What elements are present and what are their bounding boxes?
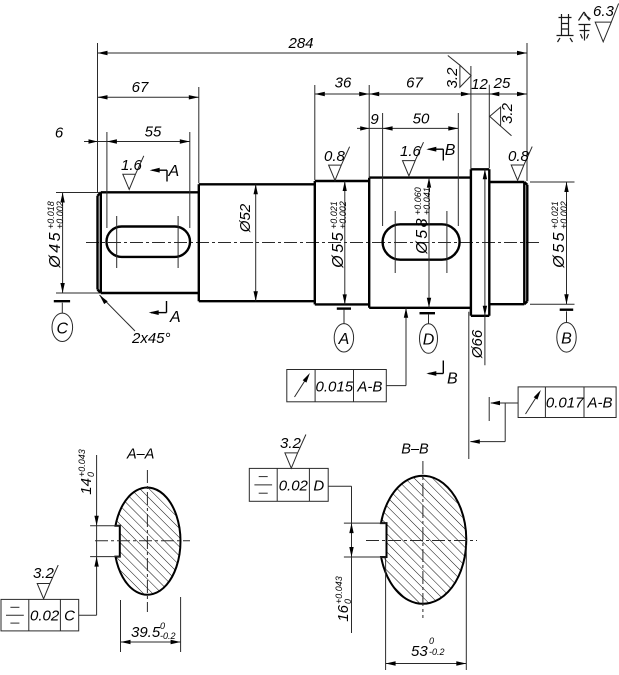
shaft section 1 outline (dia45) (98, 192, 199, 293)
keyway slot 2 (383, 224, 460, 259)
svg-text:3.2: 3.2 (499, 102, 516, 124)
section B-B vertical centerline (422, 461, 424, 618)
svg-text:50: 50 (413, 111, 430, 128)
section B-B horizontal centerline (366, 540, 477, 542)
svg-text:+0.002: +0.002 (338, 201, 348, 229)
roughness 3.2 over frame C (33, 565, 58, 599)
dim 50 (keyway 2 length) (383, 111, 459, 227)
svg-text:2x45°: 2x45° (131, 330, 171, 347)
svg-text:B: B (447, 371, 458, 388)
roughness 1.6 over section 1 (121, 156, 144, 190)
svg-text:D: D (313, 478, 324, 495)
svg-text:Ø52: Ø52 (237, 203, 254, 233)
svg-text:0.02: 0.02 (30, 608, 60, 625)
svg-text:25: 25 (493, 75, 511, 92)
roughness 3.2 rotated, collar right face (490, 102, 516, 135)
section arrow A upper (150, 163, 179, 182)
section A-A vertical centerline (146, 470, 148, 612)
svg-text:1.6: 1.6 (400, 143, 422, 160)
section arrow B upper (426, 142, 456, 161)
dim 12 (collar width) (471, 76, 489, 168)
keyway 2 arc center ticks (394, 211, 396, 273)
svg-text:Ø66: Ø66 (469, 329, 486, 359)
svg-text:284: 284 (287, 35, 313, 52)
svg-text:0.8: 0.8 (508, 148, 530, 165)
svg-text:14: 14 (78, 478, 95, 495)
svg-text:Ø58: Ø58 (414, 216, 431, 255)
svg-text:+0.002: +0.002 (559, 201, 569, 229)
svg-text:0: 0 (429, 636, 434, 646)
svg-text:0: 0 (343, 599, 353, 604)
dim dia45 left (46, 193, 99, 294)
collar left face extension line (468, 312, 470, 459)
svg-text:A: A (168, 163, 180, 180)
svg-text:Ø55: Ø55 (551, 230, 568, 269)
shaft section 3 outline (dia55 first) (315, 181, 369, 304)
roughness 0.8 over section 3 (324, 147, 350, 181)
svg-text:3.2: 3.2 (33, 565, 55, 582)
svg-text:B: B (561, 331, 572, 348)
section A-A hatched body (116, 488, 181, 595)
svg-text:3.2: 3.2 (280, 435, 302, 452)
dim dia58 keyway section (413, 178, 432, 308)
svg-text:Ø45: Ø45 (47, 230, 64, 269)
svg-text:1.6: 1.6 (121, 157, 143, 174)
svg-text:9: 9 (370, 111, 379, 128)
dim 16 keyway width B-B (334, 486, 387, 633)
dim dia52 (237, 184, 258, 301)
roughness 3.2 rotated, collar left face (444, 56, 471, 89)
shaft section 2 outline (dia52) (199, 184, 315, 301)
svg-text:Ø55: Ø55 (330, 230, 347, 269)
dim 284 overall (98, 35, 528, 192)
roughness 1.6 over section 4 (400, 142, 424, 176)
svg-text:A-B: A-B (356, 379, 382, 396)
dim 67 right (section 4 length) (369, 66, 471, 169)
svg-text:55: 55 (145, 124, 162, 141)
svg-text:6.3: 6.3 (593, 3, 615, 20)
datum C (52, 301, 73, 341)
centerline main axis (86, 242, 540, 244)
chamfer note 2x45deg (100, 295, 171, 347)
dim dia55 right (530, 182, 575, 304)
svg-text:0: 0 (160, 621, 165, 631)
svg-text:C: C (57, 321, 69, 338)
section arrow A lower (149, 301, 181, 326)
svg-text:0.015: 0.015 (316, 379, 354, 396)
roughness 3.2 over frame D (280, 435, 306, 469)
datum B (557, 310, 576, 352)
svg-text:A: A (169, 309, 181, 326)
svg-text:B–B: B–B (401, 442, 429, 458)
collar right face extension line (488, 397, 490, 421)
section B-B hatched body (381, 476, 466, 604)
chinese characters qi-yu (rest) drawn as strokes (557, 12, 591, 42)
dim dia55 first (329, 181, 348, 304)
svg-text:+0.041: +0.041 (422, 187, 432, 215)
section arrow B lower (426, 361, 458, 388)
svg-text:53: 53 (411, 643, 428, 660)
svg-text:12: 12 (471, 76, 488, 93)
svg-text:6: 6 (55, 125, 64, 142)
svg-text:C: C (64, 608, 75, 625)
dim 14 keyway width A-A (77, 449, 120, 615)
dim 9 (keyway 2 offset) (357, 111, 383, 131)
dim dia66 collar (469, 169, 487, 365)
dim 67 left (section 1 length) (98, 79, 199, 183)
dim 55 (keyway 1 length) (107, 124, 190, 229)
svg-text:+0.002: +0.002 (55, 201, 65, 229)
svg-text:0.02: 0.02 (279, 478, 309, 495)
svg-text:0.017: 0.017 (546, 395, 584, 412)
shaft section 4 outline (dia58 keyway section) (369, 178, 471, 308)
section A-A horizontal centerline (95, 540, 190, 542)
runout frame 0.017 A-B (470, 387, 616, 444)
dim 25 (right section length) (489, 75, 527, 96)
symmetry frame 0.02 C (1, 599, 97, 631)
svg-text:D: D (423, 332, 435, 349)
svg-text:A–A: A–A (126, 447, 154, 463)
svg-text:67: 67 (406, 75, 423, 92)
svg-text:36: 36 (335, 75, 352, 92)
svg-text:0: 0 (86, 472, 96, 477)
datum D (420, 313, 438, 353)
svg-text:A: A (338, 331, 350, 348)
shaft section 6 outline (dia55 right) (489, 182, 527, 304)
svg-text:67: 67 (132, 79, 149, 96)
svg-text:3.2: 3.2 (444, 67, 461, 89)
svg-text:39.5: 39.5 (131, 624, 161, 641)
general roughness note 6.3 top right (593, 3, 619, 42)
roughness 0.8 over section 6 (508, 147, 532, 181)
keyway slot 1 (107, 227, 191, 257)
dim 53 B-B (386, 545, 467, 670)
datum A (334, 309, 353, 352)
dim 36 (315, 75, 369, 181)
symmetry frame 0.02 D (249, 468, 351, 501)
runout frame 0.015 A-B (287, 308, 408, 402)
shaft collar outline (dia66) (471, 169, 489, 315)
keyway 1 arc center ticks (116, 216, 118, 268)
svg-text:16: 16 (335, 604, 352, 621)
dim 6 (keyway 1 offset) (55, 125, 107, 144)
svg-text:-0.2: -0.2 (429, 647, 445, 657)
dim 39.5 A-A (121, 597, 181, 652)
svg-text:-0.2: -0.2 (160, 631, 176, 641)
svg-text:A-B: A-B (586, 395, 612, 412)
svg-text:0.8: 0.8 (324, 148, 346, 165)
svg-text:B: B (445, 142, 456, 159)
